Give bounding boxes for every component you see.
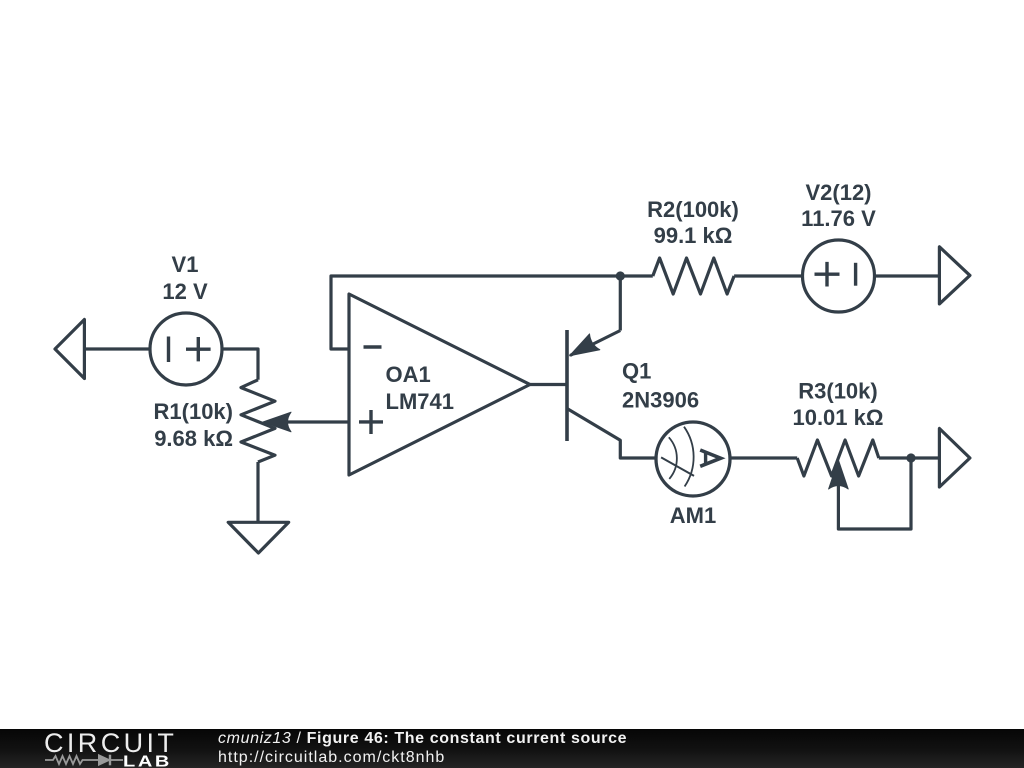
Q1 emitter wire up to node A bbox=[619, 276, 622, 331]
wire R3 to T3 bbox=[879, 456, 940, 459]
Q1 collector wire to AM1 bbox=[567, 409, 656, 459]
svg-text:AM1: AM1 bbox=[670, 503, 716, 528]
potentiometer R1 zigzag bbox=[241, 380, 275, 462]
wire R1 to ground bbox=[256, 462, 259, 522]
V1 plus sign bbox=[186, 337, 211, 361]
footer bar bbox=[0, 729, 1024, 768]
footer line 2 bbox=[218, 750, 445, 766]
AM1 meter arc inner bbox=[669, 437, 677, 479]
R1 wiper arrow head bbox=[263, 412, 291, 432]
Q1 emitter arrow head bbox=[570, 334, 600, 356]
terminal port T3 (right bottom) bbox=[939, 429, 970, 488]
resistor R2 zigzag bbox=[653, 258, 734, 294]
node A junction dot bbox=[616, 271, 625, 280]
svg-text:V2(12): V2(12) bbox=[805, 180, 871, 205]
potentiometer R3 zigzag bbox=[797, 440, 879, 476]
wire node to R2 bbox=[620, 274, 653, 277]
svg-text:10.01 kΩ: 10.01 kΩ bbox=[792, 405, 883, 430]
svg-text:R1(10k): R1(10k) bbox=[154, 399, 233, 424]
V1 minus bar bbox=[167, 337, 170, 363]
svg-text:11.76 V: 11.76 V bbox=[801, 206, 876, 231]
wire R2 to V2 bbox=[734, 274, 802, 277]
AM1 meter arc outer bbox=[684, 427, 694, 487]
svg-text:R2(100k): R2(100k) bbox=[647, 197, 739, 222]
svg-text:Q1: Q1 bbox=[622, 359, 651, 384]
logo resistor+diode glyph bbox=[44, 750, 134, 768]
wire V2 to T2 bbox=[875, 274, 940, 277]
op-amp minus symbol bbox=[364, 345, 382, 348]
svg-text:LM741: LM741 bbox=[386, 389, 454, 414]
voltage source V1 bbox=[150, 313, 222, 385]
AM1 needle bbox=[661, 457, 694, 476]
wire AM1 to R3 bbox=[730, 456, 797, 459]
CircuitLab logo text bbox=[44, 729, 177, 757]
R3 wiper wire to node B bbox=[838, 458, 911, 529]
svg-text:R3(10k): R3(10k) bbox=[798, 379, 877, 404]
feedback wire from minus input to node A bbox=[331, 276, 620, 349]
svg-text:99.1 kΩ: 99.1 kΩ bbox=[654, 223, 733, 248]
op-amp plus symbol bbox=[359, 410, 383, 434]
wire V1 to R1 top bbox=[222, 349, 258, 380]
AM1 letter A rotated (drawn as strokes, apex pointing right) bbox=[700, 450, 721, 466]
Q1 emitter diagonal bbox=[570, 331, 620, 356]
voltage source V2 bbox=[803, 240, 875, 312]
node B junction dot bbox=[906, 453, 915, 462]
transistor Q1 base bar bbox=[565, 330, 569, 441]
op-amp OA1 triangle bbox=[349, 294, 530, 475]
svg-text:OA1: OA1 bbox=[386, 362, 431, 387]
svg-text:V1: V1 bbox=[172, 252, 199, 277]
svg-text:9.68 kΩ: 9.68 kΩ bbox=[154, 426, 233, 451]
ammeter AM1 circle bbox=[656, 422, 730, 496]
V2 plus sign bbox=[815, 262, 840, 287]
terminal port T2 (right top) bbox=[939, 247, 970, 304]
wire T1 to V1 bbox=[84, 347, 150, 350]
V2 minus bar bbox=[854, 263, 857, 286]
ground bbox=[228, 522, 289, 553]
R3 wiper arrow head bbox=[829, 460, 849, 489]
svg-text:2N3906: 2N3906 bbox=[622, 388, 699, 413]
svg-text:12 V: 12 V bbox=[162, 279, 208, 304]
op-amp output wire bbox=[530, 383, 567, 386]
footer line 1 bbox=[218, 731, 627, 747]
terminal port T1 (left) bbox=[55, 320, 84, 379]
wire R1 wiper to op-amp plus input bbox=[287, 420, 349, 423]
